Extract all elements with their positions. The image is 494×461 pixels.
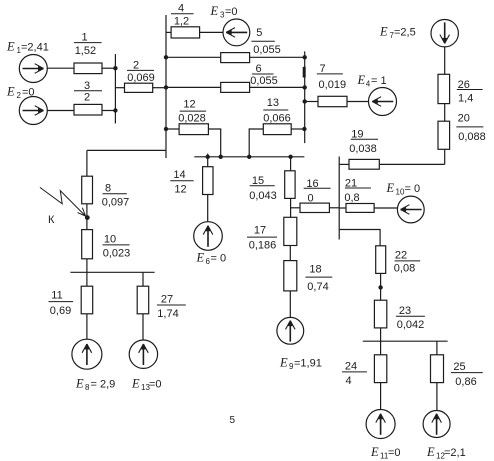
svg-text:15: 15 (252, 175, 264, 187)
svg-text:0,74: 0,74 (307, 281, 328, 293)
svg-text:= 1: = 1 (371, 75, 387, 87)
wire R7 to E4 (347, 101, 369, 103)
svg-text:3: 3 (84, 80, 90, 92)
svg-text:6: 6 (255, 63, 261, 75)
wire R20 down to corner (444, 149, 446, 164)
junction dot line5/busC (303, 55, 307, 59)
wire line E to R21 (339, 207, 346, 209)
svg-text:13: 13 (267, 97, 279, 109)
svg-text:E: E (75, 377, 84, 391)
node: bus A (left generator bus) (114, 54, 116, 123)
wire bus G to R11 (86, 272, 88, 286)
wire bus C to R7 (305, 101, 318, 103)
svg-text:2: 2 (17, 91, 22, 100)
label E2=0 (6, 84, 35, 100)
wire R1 to bus A (102, 67, 115, 69)
svg-text:E: E (279, 356, 288, 370)
junction dot R13/busC (302, 127, 306, 131)
source E8 (72, 339, 102, 369)
label 17/0,186 (249, 225, 277, 252)
source E4 (369, 88, 397, 116)
svg-text:E: E (357, 73, 366, 87)
source E10 (397, 196, 424, 223)
resistor R11 (81, 286, 93, 314)
resistor R3 (74, 104, 102, 115)
label K (48, 214, 55, 226)
wire R10 to bus G (86, 259, 88, 273)
svg-text:=0: =0 (225, 6, 238, 18)
svg-text:24: 24 (345, 360, 357, 372)
resistor R17 (284, 217, 297, 245)
svg-text:4: 4 (345, 375, 351, 387)
label 6/0,055 (250, 63, 278, 87)
svg-text:E: E (210, 4, 219, 18)
svg-text:1,4: 1,4 (458, 93, 473, 105)
label 10/0,023 (103, 234, 131, 260)
wire R15 to R17 (290, 198, 292, 217)
svg-text:11: 11 (51, 290, 62, 302)
label E9=1,91 (279, 356, 322, 372)
label 21/0,8 (344, 177, 359, 204)
resistor R24 (374, 355, 386, 383)
svg-text:10: 10 (104, 234, 116, 246)
resistor R1 (74, 63, 102, 74)
node: bus C (third vertical bus) (304, 51, 306, 143)
svg-text:0,019: 0,019 (319, 79, 347, 91)
svg-text:0,097: 0,097 (102, 196, 130, 208)
wire R21 to E10 (374, 207, 397, 209)
label 16/0 (306, 178, 318, 205)
node: bus B (second vertical bus) (165, 15, 167, 158)
svg-text:= 0: = 0 (405, 183, 421, 195)
junction dot K (fault point) (85, 215, 90, 220)
svg-text:E: E (6, 40, 15, 54)
resistor R6 (221, 82, 250, 92)
label 25/0,86 (453, 361, 476, 388)
resistor R5 (221, 53, 250, 63)
source E6 (194, 222, 223, 251)
wire R13 to bus C (291, 128, 304, 130)
svg-text:14: 14 (173, 169, 185, 181)
wire bus G to R27 (142, 272, 144, 286)
junction dot R15/busD (288, 155, 292, 159)
source E13 (129, 340, 157, 368)
label 3/2 (84, 80, 90, 103)
label 14/12 (173, 169, 186, 196)
svg-text:27: 27 (161, 294, 173, 306)
junction dot line6/busC (303, 85, 307, 89)
wire line E corner to branch 22 (339, 230, 380, 246)
wire bus F to R24 (380, 341, 382, 355)
svg-text:E: E (6, 84, 15, 98)
wire R16 to line E (329, 207, 339, 209)
label 26/1,4 (458, 79, 474, 105)
svg-text:7: 7 (319, 63, 325, 75)
label 5/0,055 (253, 27, 281, 56)
wire line 6 left (166, 86, 221, 88)
svg-text:=0: =0 (149, 379, 162, 391)
junction dot line5/busB (164, 55, 168, 59)
wire R22 to R23 (380, 273, 382, 300)
label 22/0,08 (394, 250, 415, 275)
label 20/0,088 (458, 112, 486, 143)
label 19/0,038 (349, 129, 377, 156)
svg-text:0,043: 0,043 (249, 190, 277, 202)
label E10=0 (386, 181, 421, 197)
node: line E (vertical net right-middle) (338, 157, 340, 240)
wire R8 to R10 (86, 204, 88, 230)
wire K-branch top horizontal (87, 149, 165, 151)
label 15/0,043 (249, 175, 277, 202)
svg-text:4: 4 (178, 3, 184, 15)
wire R25 to E12 (436, 383, 438, 411)
svg-text:25: 25 (453, 361, 465, 373)
label E6=0 (196, 250, 227, 266)
svg-text:2: 2 (84, 91, 90, 103)
source E12 (423, 411, 450, 438)
wire R18 to E9 (289, 291, 291, 318)
wire R27 to E13 (142, 314, 144, 340)
svg-text:0,023: 0,023 (103, 247, 131, 259)
svg-text:12: 12 (183, 99, 195, 111)
junction dot line6/busB (164, 85, 168, 89)
bus C thick segment (303, 67, 306, 78)
junction dot R7/busC (303, 99, 307, 103)
wire R26 to R20 (444, 104, 446, 122)
resistor R22 (376, 246, 386, 274)
wire R19 to line E (339, 163, 349, 165)
label 1/1,52 (75, 32, 96, 58)
wire bus F to R25 (436, 341, 438, 355)
svg-text:18: 18 (309, 264, 321, 276)
wire R12 right corner down to bus D (208, 129, 220, 157)
svg-text:0,088: 0,088 (458, 131, 486, 143)
svg-text:1,52: 1,52 (75, 45, 96, 57)
label 13/0,066 (263, 97, 291, 124)
label 8/0,097 (102, 182, 130, 208)
wire R24 to E11 (380, 383, 382, 410)
resistor R26 (438, 74, 450, 103)
wire line 6 right (250, 86, 305, 88)
svg-text:1: 1 (81, 32, 87, 44)
wire R17 to R18 (289, 246, 291, 261)
resistor R8 (82, 176, 93, 204)
svg-text:1,2: 1,2 (174, 15, 189, 27)
label 24/4 (345, 360, 357, 387)
label E13=0 (131, 377, 162, 393)
svg-text:0,8: 0,8 (344, 192, 359, 204)
label E3=0 (210, 4, 238, 20)
svg-text:5: 5 (230, 415, 236, 426)
label E11=0 (370, 445, 401, 461)
svg-text:23: 23 (399, 305, 411, 317)
junction dot R13/busD (247, 155, 251, 159)
svg-text:0,186: 0,186 (249, 240, 277, 252)
label 11/0,69 (50, 290, 71, 317)
svg-text:0,055: 0,055 (250, 75, 278, 87)
junction dot R12/busD (219, 155, 223, 159)
label 27/1,74 (157, 294, 178, 320)
wire R2 to bus B (153, 87, 166, 89)
node: bus G (bottom left bus) (70, 271, 154, 273)
wire line 5 right (250, 56, 305, 58)
junction dot R12/busB (164, 127, 168, 131)
resistor R14 (203, 167, 213, 195)
svg-text:=2,5: =2,5 (394, 27, 416, 39)
svg-text:К: К (48, 214, 55, 226)
svg-text:0: 0 (307, 192, 313, 204)
wire E2 to R3 (47, 110, 74, 112)
wire corner to R19 (379, 163, 444, 165)
wire line 5 left (166, 56, 221, 58)
source E3 (223, 19, 250, 46)
wire bus B to R12 (166, 128, 179, 130)
node: bus F (bottom right bus) (363, 340, 448, 342)
resistor R10 (82, 230, 93, 259)
svg-text:12: 12 (174, 184, 186, 196)
svg-text:0,069: 0,069 (127, 72, 155, 84)
label 12/0,028 (178, 99, 206, 125)
svg-text:0,038: 0,038 (349, 143, 377, 155)
resistor R27 (137, 286, 149, 314)
svg-text:E: E (196, 250, 205, 264)
wire E7 to R26 (444, 47, 446, 74)
label 18/0,74 (307, 264, 328, 294)
wire R3 to bus A (102, 110, 115, 112)
resistor R2 (125, 83, 153, 92)
label E7=2,5 (379, 25, 416, 41)
label 7/0,019 (319, 63, 347, 91)
resistor R15 (285, 171, 295, 199)
svg-text:2: 2 (133, 60, 139, 72)
resistor R18 (284, 261, 297, 291)
label 23/0,042 (397, 305, 425, 331)
svg-text:0,042: 0,042 (397, 319, 425, 331)
junction dot between R22 R23 (378, 285, 382, 289)
wire node15 to R16 (291, 207, 300, 209)
svg-text:0,08: 0,08 (394, 263, 415, 275)
source E2 (19, 97, 47, 125)
svg-text:17: 17 (254, 225, 266, 237)
svg-text:=2,1: =2,1 (444, 447, 466, 459)
source E1 (19, 55, 47, 83)
svg-text:8: 8 (85, 383, 90, 392)
svg-text:20: 20 (458, 112, 470, 124)
resistor R4 (171, 27, 200, 38)
source E9 (277, 317, 304, 344)
wire bus A to R2 (115, 87, 124, 89)
label E12=2,1 (426, 445, 466, 461)
wire bus D to R15 (290, 157, 292, 171)
label 4/1,2 (174, 3, 189, 28)
svg-text:=0: =0 (388, 447, 401, 459)
source E11 (366, 410, 395, 439)
wire bus D up to R13 (249, 129, 263, 157)
svg-text:E: E (386, 181, 395, 195)
wire E1 to R1 (47, 67, 74, 69)
branch 14 stub above bus D (207, 154, 209, 157)
svg-text:0,066: 0,066 (263, 113, 291, 125)
svg-text:E: E (379, 25, 388, 39)
resistor R12 (179, 124, 208, 135)
resistor R19 (349, 159, 379, 169)
junction dot R14/busD (206, 155, 210, 159)
svg-text:= 2,9: = 2,9 (91, 379, 116, 391)
svg-text:8: 8 (105, 182, 111, 194)
source E7 (431, 20, 458, 47)
svg-text:=2,41: =2,41 (21, 42, 49, 54)
svg-text:0,86: 0,86 (455, 376, 476, 388)
wire R4 to E3 (200, 31, 223, 33)
junction dot R3/busA (113, 108, 117, 112)
svg-text:0,055: 0,055 (253, 44, 281, 56)
lightning arrow (short circuit) (40, 187, 86, 216)
label E8=2,9 (75, 377, 115, 393)
page number 5 (230, 415, 236, 426)
label 2/0,069 (127, 60, 155, 85)
svg-text:0,69: 0,69 (50, 305, 71, 317)
node: bus D (horizontal middle bus) (194, 156, 304, 158)
resistor R16 (300, 203, 329, 212)
wire top to R8 (86, 150, 88, 176)
junction dot R1/busA (113, 66, 117, 70)
svg-text:5: 5 (256, 27, 262, 39)
svg-text:0,028: 0,028 (178, 113, 206, 125)
svg-text:=0: =0 (22, 86, 35, 98)
resistor R23 (374, 300, 386, 328)
svg-text:E: E (131, 377, 140, 391)
svg-text:E: E (370, 445, 379, 459)
wire R11 to E8 (86, 314, 88, 339)
svg-text:=1,91: =1,91 (294, 358, 322, 370)
resistor R21 (346, 204, 374, 213)
svg-text:1,74: 1,74 (157, 308, 178, 320)
wire R14 to E6 (207, 195, 209, 222)
resistor R25 (431, 355, 444, 383)
resistor R20 (438, 121, 450, 149)
svg-text:22: 22 (395, 250, 407, 262)
wire R23 to bus F (380, 328, 382, 341)
svg-text:E: E (426, 445, 435, 459)
label E1=2,41 (6, 40, 49, 56)
resistor R7 (318, 96, 347, 106)
wire bus B to R4 (166, 31, 171, 33)
resistor R13 (263, 124, 291, 135)
label E4=1 (357, 73, 387, 89)
wire bus D to R14 (207, 157, 209, 167)
svg-text:= 0: = 0 (211, 252, 227, 264)
